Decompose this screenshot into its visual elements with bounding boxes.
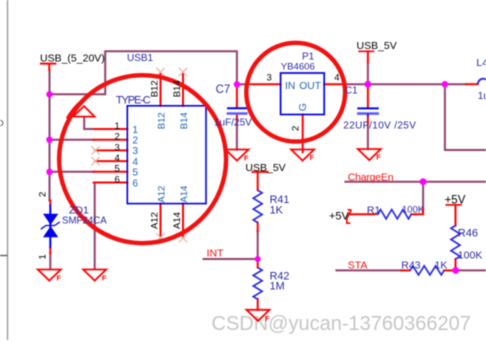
- svg-text:C1: C1: [345, 86, 358, 97]
- svg-text:R1: R1: [367, 204, 381, 216]
- svg-text:A14: A14: [179, 186, 190, 203]
- svg-text:6: 6: [115, 174, 120, 185]
- svg-text:5: 5: [132, 168, 138, 179]
- svg-text:R46: R46: [458, 228, 478, 240]
- svg-text:B12: B12: [156, 112, 167, 129]
- svg-text:2: 2: [132, 136, 138, 147]
- svg-text:A12: A12: [156, 186, 167, 203]
- svg-text:USB_5V: USB_5V: [245, 162, 285, 174]
- svg-text:A14: A14: [172, 212, 183, 229]
- svg-text:B14: B14: [172, 80, 183, 97]
- svg-text:2: 2: [115, 132, 120, 143]
- svg-text:1K: 1K: [270, 204, 284, 216]
- svg-text:F: F: [57, 274, 62, 283]
- svg-text:IN: IN: [285, 81, 295, 92]
- svg-text:+5V: +5V: [329, 211, 350, 223]
- svg-text:4: 4: [115, 153, 120, 164]
- svg-text:TYPE-C: TYPE-C: [116, 95, 151, 107]
- svg-text:+5V: +5V: [445, 194, 466, 206]
- svg-text:A12: A12: [150, 212, 161, 229]
- svg-text:D: D: [0, 118, 4, 128]
- svg-text:4: 4: [132, 157, 138, 168]
- svg-text:OUT: OUT: [299, 81, 321, 92]
- svg-text:R43: R43: [401, 259, 420, 271]
- svg-text:5: 5: [115, 164, 120, 175]
- svg-text:USB_(5_20V): USB_(5_20V): [40, 52, 105, 64]
- svg-text:6: 6: [132, 178, 138, 189]
- svg-text:C7: C7: [216, 84, 231, 96]
- svg-text:CSDN@yucan-13760366207: CSDN@yucan-13760366207: [212, 313, 471, 335]
- svg-text:1: 1: [115, 121, 120, 132]
- svg-text:SMF24CA: SMF24CA: [62, 216, 107, 227]
- svg-text:USB_5V: USB_5V: [357, 40, 397, 52]
- svg-text:3: 3: [115, 142, 120, 153]
- svg-text:F: F: [265, 314, 270, 323]
- svg-text:1K: 1K: [435, 259, 448, 271]
- svg-text:100K: 100K: [402, 205, 425, 216]
- svg-text:4: 4: [334, 72, 339, 83]
- svg-text:2: 2: [38, 192, 49, 197]
- svg-text:F: F: [102, 274, 107, 283]
- svg-text:YB4606: YB4606: [281, 62, 315, 73]
- svg-text:2: 2: [291, 126, 302, 131]
- svg-text:ChargeEn: ChargeEn: [348, 172, 394, 184]
- svg-text:3: 3: [132, 146, 138, 157]
- svg-text:1uF/25V: 1uF/25V: [214, 117, 252, 128]
- svg-text:100K: 100K: [458, 249, 483, 261]
- svg-text:G: G: [297, 103, 309, 111]
- svg-text:22UF/10V /25V: 22UF/10V /25V: [343, 120, 416, 131]
- svg-text:F: F: [310, 153, 315, 162]
- svg-text:3: 3: [267, 72, 272, 83]
- svg-text:USB1: USB1: [127, 53, 154, 64]
- svg-text:F: F: [376, 153, 381, 162]
- svg-text:B12: B12: [150, 80, 161, 97]
- svg-text:B14: B14: [179, 112, 190, 129]
- svg-text:1M: 1M: [270, 280, 285, 292]
- svg-text:1: 1: [132, 125, 138, 136]
- svg-text:STA: STA: [348, 259, 368, 271]
- svg-text:L4: L4: [476, 57, 486, 69]
- svg-text:1: 1: [38, 254, 49, 259]
- svg-text:INT: INT: [207, 247, 225, 259]
- svg-text:1u: 1u: [478, 91, 486, 102]
